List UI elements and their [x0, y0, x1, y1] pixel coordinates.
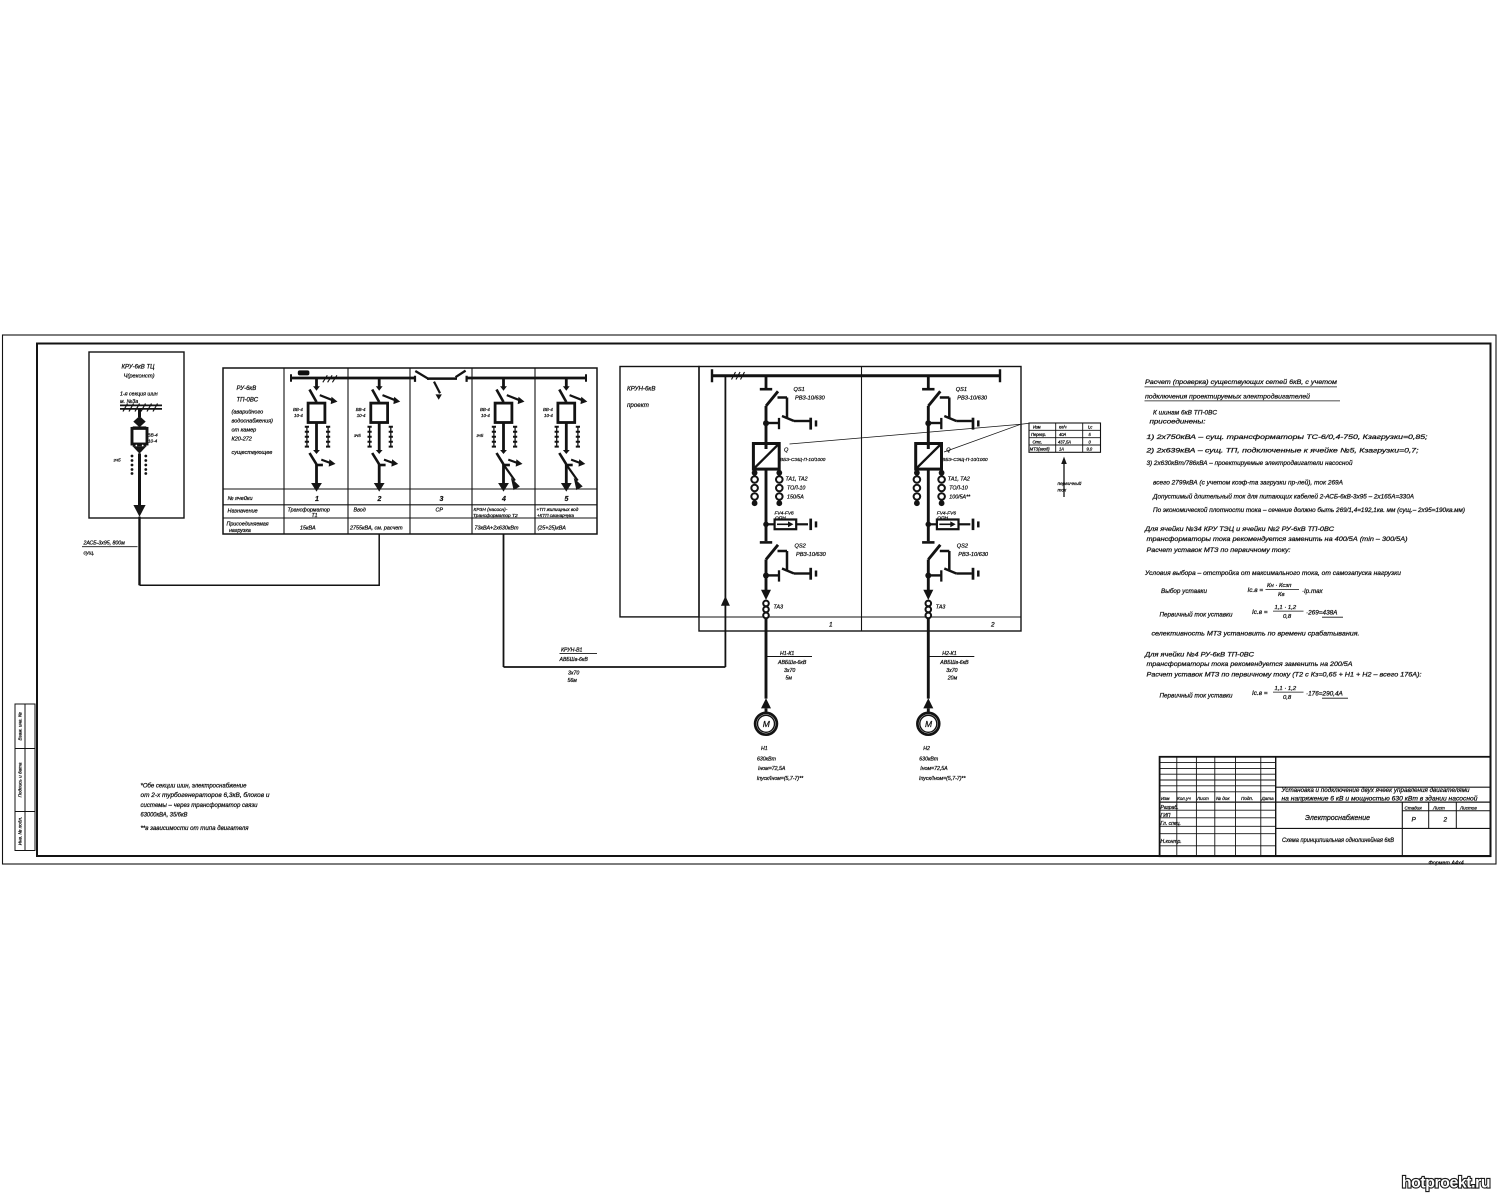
- svg-text:Н2: Н2: [923, 746, 930, 752]
- svg-text:ОПН: ОПН: [937, 516, 948, 522]
- svg-text:15кВА: 15кВА: [300, 526, 316, 532]
- svg-text:Допустимый длительный ток для: Допустимый длительный ток для питающих к…: [1152, 492, 1415, 500]
- svg-text:Iном=72,5А: Iном=72,5А: [920, 766, 948, 772]
- svg-text:40А: 40А: [1059, 432, 1067, 437]
- svg-text:КРЗН (насосн)-: КРЗН (насосн)-: [474, 507, 508, 513]
- svg-text:№ ячейки: № ячейки: [228, 495, 253, 502]
- svg-text:1: 1: [315, 496, 319, 503]
- svg-text:437,5А: 437,5А: [1058, 439, 1071, 444]
- svg-text:(25+25)кВА: (25+25)кВА: [538, 526, 567, 532]
- svg-text:КРУН-В1: КРУН-В1: [561, 648, 583, 654]
- svg-text:СР: СР: [436, 508, 444, 514]
- svg-text:2755кВА, см. расчет: 2755кВА, см. расчет: [349, 526, 403, 532]
- svg-text:К шинам 6кВ ТП-0ВС: К шинам 6кВ ТП-0ВС: [1153, 409, 1217, 416]
- svg-text:Кв: Кв: [1278, 592, 1285, 598]
- svg-text:1,1 · 1,2: 1,1 · 1,2: [1275, 686, 1297, 692]
- svg-text:РВЗ-10/630: РВЗ-10/630: [957, 396, 988, 402]
- svg-text:м. №3а: м. №3а: [120, 399, 138, 405]
- svg-text:3) 2х630кВт/786кВА – проектиру: 3) 2х630кВт/786кВА – проектируемые элект…: [1147, 459, 1353, 467]
- svg-text:630кВт: 630кВт: [919, 757, 939, 763]
- svg-text:9,0: 9,0: [1087, 447, 1093, 452]
- svg-text:0,8: 0,8: [1283, 614, 1292, 620]
- svg-text:Кол.уч: Кол.уч: [1177, 796, 1191, 801]
- svg-text:подключения проектируемых элек: подключения проектируемых электродвигате…: [1145, 392, 1310, 400]
- svg-text:Расчет (проверка) существующих: Расчет (проверка) существующих сетей 6кВ…: [1145, 378, 1338, 386]
- svg-text:t,с: t,с: [1088, 425, 1092, 430]
- svg-text:Разраб.: Разраб.: [1161, 805, 1179, 811]
- svg-text:5м: 5м: [786, 676, 793, 682]
- svg-text:ТП-0ВС: ТП-0ВС: [237, 398, 259, 404]
- svg-text:Листов: Листов: [1459, 806, 1477, 811]
- svg-text:Лист: Лист: [1432, 806, 1445, 811]
- svg-text:Трансформатор Т2: Трансформатор Т2: [473, 513, 518, 519]
- svg-text:РВЗ-10/630: РВЗ-10/630: [796, 552, 827, 558]
- svg-text:ГИП: ГИП: [1161, 813, 1171, 819]
- svg-text:1А: 1А: [1059, 447, 1064, 452]
- svg-text:Взам. инв. №: Взам. инв. №: [18, 712, 23, 740]
- svg-text:КРУ-6кВ ТЦ: КРУ-6кВ ТЦ: [122, 365, 156, 371]
- svg-text:100/5А**: 100/5А**: [949, 495, 971, 501]
- svg-text:Р: Р: [1412, 817, 1417, 824]
- svg-text:73кВА+2х630кВт: 73кВА+2х630кВт: [475, 526, 520, 532]
- svg-text:Инв. № подл.: Инв. № подл.: [18, 817, 23, 846]
- svg-text:проект: проект: [627, 402, 649, 409]
- svg-text:Схема принципиальная однолиней: Схема принципиальная однолинейная 6кВ: [1282, 837, 1394, 844]
- svg-text:Изм: Изм: [1161, 796, 1170, 801]
- svg-text:1-я секция шин: 1-я секция шин: [120, 392, 158, 398]
- svg-text:Формат А4х4: Формат А4х4: [1429, 861, 1464, 867]
- svg-text:от 2-х турбогенераторов 6,3кВ,: от 2-х турбогенераторов 6,3кВ, блоков и: [141, 792, 271, 799]
- svg-text:ТОЛ-10: ТОЛ-10: [949, 486, 967, 492]
- svg-text:Отс.: Отс.: [1033, 439, 1043, 444]
- svg-text:63000кВА, 35/6кВ: 63000кВА, 35/6кВ: [141, 811, 188, 818]
- svg-text:hotproekt.ru: hotproekt.ru: [1402, 1175, 1490, 1192]
- svg-text:Ввод: Ввод: [354, 508, 366, 514]
- svg-text:Расчет уставок МТЗ по первично: Расчет уставок МТЗ по первичному току:: [1147, 547, 1291, 554]
- svg-text:Перегр.: Перегр.: [1031, 432, 1046, 437]
- svg-text:(аварийного: (аварийного: [232, 409, 264, 416]
- svg-text:ВВ-4: ВВ-4: [480, 407, 490, 412]
- svg-text:трансформаторы тока рекомендуе: трансформаторы тока рекомендуется замени…: [1147, 535, 1408, 543]
- svg-text:*Обе секции шин, электроснабже: *Обе секции шин, электроснабжение: [141, 783, 248, 790]
- svg-text:водоснабжения): водоснабжения): [232, 419, 274, 425]
- svg-text:КРУН-6кВ: КРУН-6кВ: [627, 386, 655, 393]
- svg-text:ВВ-4: ВВ-4: [148, 433, 159, 438]
- svg-text:3х70: 3х70: [784, 668, 795, 674]
- svg-text:150/5А: 150/5А: [787, 495, 804, 501]
- svg-text:ТА1, ТА2: ТА1, ТА2: [786, 477, 808, 483]
- svg-text:FV4-FV6: FV4-FV6: [937, 511, 957, 517]
- svg-text:ТОЛ-10: ТОЛ-10: [787, 486, 805, 492]
- svg-text:Подпись и дата: Подпись и дата: [18, 762, 23, 797]
- svg-text:Трансформатор: Трансформатор: [288, 508, 330, 514]
- svg-text:Изм: Изм: [1033, 425, 1041, 430]
- svg-text:ВВ-4: ВВ-4: [543, 407, 553, 412]
- svg-text:10-4: 10-4: [357, 413, 366, 418]
- svg-text:Подп.: Подп.: [1241, 796, 1253, 801]
- svg-text:РУ-6кВ: РУ-6кВ: [237, 386, 257, 392]
- svg-text:3х70: 3х70: [568, 671, 579, 677]
- svg-text:ОПН: ОПН: [775, 516, 786, 522]
- svg-text:кл/ч: кл/ч: [1059, 425, 1067, 430]
- svg-text:присоединены:: присоединены:: [1150, 417, 1206, 425]
- svg-text:Iс.в =: Iс.в =: [1248, 587, 1264, 594]
- svg-text:QS1: QS1: [794, 387, 805, 393]
- svg-text:10-4: 10-4: [544, 413, 553, 418]
- svg-text:10-4: 10-4: [148, 439, 158, 444]
- svg-text:QS2: QS2: [795, 544, 807, 550]
- svg-text:+КТП свинарчука: +КТП свинарчука: [537, 513, 574, 518]
- svg-text:Iном=72,5А: Iном=72,5А: [758, 766, 786, 772]
- svg-text:на напряжение 6 кВ и мощностью: на напряжение 6 кВ и мощностью 630 кВт в…: [1282, 795, 1479, 802]
- svg-text:·269=438А: ·269=438А: [1306, 610, 1337, 617]
- svg-text:0,8: 0,8: [1283, 695, 1292, 701]
- svg-text:Стадия: Стадия: [1405, 806, 1423, 811]
- svg-text:Iс.в =: Iс.в =: [1252, 690, 1268, 697]
- svg-text:Лист: Лист: [1196, 796, 1209, 801]
- svg-text:Для ячейки №4 РУ-6кВ ТП-0ВС: Для ячейки №4 РУ-6кВ ТП-0ВС: [1144, 650, 1254, 658]
- svg-text:М: М: [925, 719, 933, 729]
- svg-text:Дата: Дата: [1261, 796, 1275, 801]
- svg-text:зч5: зч5: [353, 433, 361, 438]
- svg-text:всего 2799кВА (с учетом коэф-т: всего 2799кВА (с учетом коэф-та загрузки…: [1153, 479, 1344, 487]
- svg-text:ТА3: ТА3: [774, 605, 784, 611]
- svg-text:трансформаторы тока рекомендуе: трансформаторы тока рекомендуется замени…: [1147, 660, 1354, 668]
- svg-text:АВБШв-6кВ: АВБШв-6кВ: [939, 660, 969, 666]
- svg-text:Ч(реконст): Ч(реконст): [124, 374, 155, 380]
- svg-text:ТА3: ТА3: [936, 605, 946, 611]
- svg-text:Присоединяемая: Присоединяемая: [227, 522, 269, 528]
- svg-text:селективность МТЗ установить п: селективность МТЗ установить по времени …: [1152, 630, 1360, 638]
- svg-text:Iпуск/Iном=(5,7-7)**: Iпуск/Iном=(5,7-7)**: [757, 776, 804, 782]
- svg-text:АВБШв-6кВ: АВБШв-6кВ: [559, 657, 589, 663]
- svg-text:РВЗ-10/630: РВЗ-10/630: [795, 396, 826, 402]
- svg-text:сущ.: сущ.: [84, 551, 95, 557]
- svg-text:Гл. спец.: Гл. спец.: [1161, 821, 1181, 827]
- svg-text:QS2: QS2: [957, 544, 969, 550]
- svg-text:Iс.в =: Iс.в =: [1252, 609, 1268, 616]
- svg-text:Назначение: Назначение: [228, 509, 258, 515]
- svg-text:1) 2х750кВА – сущ. трансформат: 1) 2х750кВА – сущ. трансформаторы ТС-6/0…: [1147, 434, 1428, 441]
- svg-text:зч5: зч5: [476, 433, 484, 438]
- svg-text:Iпуск/Iном=(5,7-7)**: Iпуск/Iном=(5,7-7)**: [919, 776, 966, 782]
- svg-text:зч5: зч5: [113, 458, 121, 464]
- svg-text:20м: 20м: [947, 676, 958, 682]
- svg-text:2: 2: [990, 622, 995, 629]
- svg-text:3: 3: [440, 496, 444, 503]
- svg-text:ВВ-4: ВВ-4: [356, 407, 366, 412]
- svg-text:**в зависимости от типа двигат: **в зависимости от типа двигателя: [141, 825, 250, 832]
- svg-text:Кн · Ксзп: Кн · Ксзп: [1267, 583, 1292, 589]
- svg-text:К20-272: К20-272: [232, 437, 252, 443]
- svg-text:10-4: 10-4: [481, 413, 490, 418]
- svg-text:от камер: от камер: [232, 428, 257, 434]
- svg-text:+ТП жилищных вод: +ТП жилищных вод: [537, 507, 579, 512]
- svg-text:QS1: QS1: [956, 387, 967, 393]
- svg-text:РВЗ-10/630: РВЗ-10/630: [958, 552, 989, 558]
- svg-text:ток: ток: [1058, 488, 1067, 493]
- svg-text:10-4: 10-4: [294, 413, 303, 418]
- svg-text:По экономической плотности ток: По экономической плотности тока – сечени…: [1153, 507, 1465, 514]
- svg-text:Н1: Н1: [761, 746, 768, 752]
- svg-text:МТЗ(ввод): МТЗ(ввод): [1030, 447, 1050, 452]
- svg-text:Первичный ток уставки: Первичный ток уставки: [1160, 610, 1233, 618]
- svg-text:ВВ-4: ВВ-4: [293, 407, 303, 412]
- svg-text:2: 2: [1443, 817, 1448, 824]
- svg-text:№ док: № док: [1216, 796, 1230, 801]
- svg-text:АВБШв-6кВ: АВБШв-6кВ: [777, 660, 807, 666]
- svg-text:Установка и подключение двух я: Установка и подключение двух ячеек управ…: [1280, 788, 1470, 794]
- svg-text:630кВт: 630кВт: [757, 757, 777, 763]
- svg-text:Н.контр.: Н.контр.: [1161, 839, 1182, 845]
- svg-text:Q: Q: [784, 448, 789, 454]
- svg-text:ТА1, ТА2: ТА1, ТА2: [948, 477, 970, 483]
- svg-text:·176=290,4А: ·176=290,4А: [1306, 691, 1343, 698]
- svg-text:Выбор уставки: Выбор уставки: [1161, 587, 1207, 595]
- svg-text:системы – через трансформатор: системы – через трансформатор связи: [141, 802, 259, 809]
- svg-text:5: 5: [565, 496, 569, 503]
- svg-text:первичный: первичный: [1058, 480, 1082, 486]
- svg-text:Первичный ток уставки: Первичный ток уставки: [1160, 691, 1233, 699]
- svg-text:Электроснабжение: Электроснабжение: [1305, 814, 1370, 822]
- svg-text:ВБЭ-СЭЩ-П-10/1000: ВБЭ-СЭЩ-П-10/1000: [942, 457, 988, 462]
- svg-text:М: М: [763, 719, 771, 729]
- svg-text:Т1: Т1: [312, 513, 318, 519]
- svg-text:Расчет уставок МТЗ по первично: Расчет уставок МТЗ по первичному току (Т…: [1147, 672, 1422, 679]
- svg-text:Для ячейки №34 КРУ ТЭЦ и ячейк: Для ячейки №34 КРУ ТЭЦ и ячейки №2 РУ-6к…: [1144, 525, 1334, 533]
- svg-text:1: 1: [829, 622, 833, 629]
- svg-text:ВБЭ-СЭЩ-П-10/1000: ВБЭ-СЭЩ-П-10/1000: [780, 457, 826, 462]
- svg-text:1,1 · 1,2: 1,1 · 1,2: [1275, 605, 1297, 611]
- svg-text:2) 2х639кВА – сущ. ТП, подключ: 2) 2х639кВА – сущ. ТП, подключенные к яч…: [1145, 447, 1419, 455]
- svg-text:·Iр.max: ·Iр.max: [1302, 588, 1324, 595]
- svg-text:FV4-FV6: FV4-FV6: [775, 511, 795, 517]
- svg-text:3х70: 3х70: [946, 668, 957, 674]
- svg-text:существующее: существующее: [232, 450, 273, 456]
- svg-text:Условия выбора – отстройка от: Условия выбора – отстройка от максимальн…: [1144, 569, 1402, 577]
- svg-text:56м: 56м: [568, 678, 578, 684]
- svg-text:4: 4: [501, 496, 506, 503]
- svg-text:2АСБ-3х95, 800м: 2АСБ-3х95, 800м: [83, 541, 126, 547]
- svg-text:нагрузка: нагрузка: [229, 528, 251, 534]
- svg-text:2: 2: [377, 496, 382, 503]
